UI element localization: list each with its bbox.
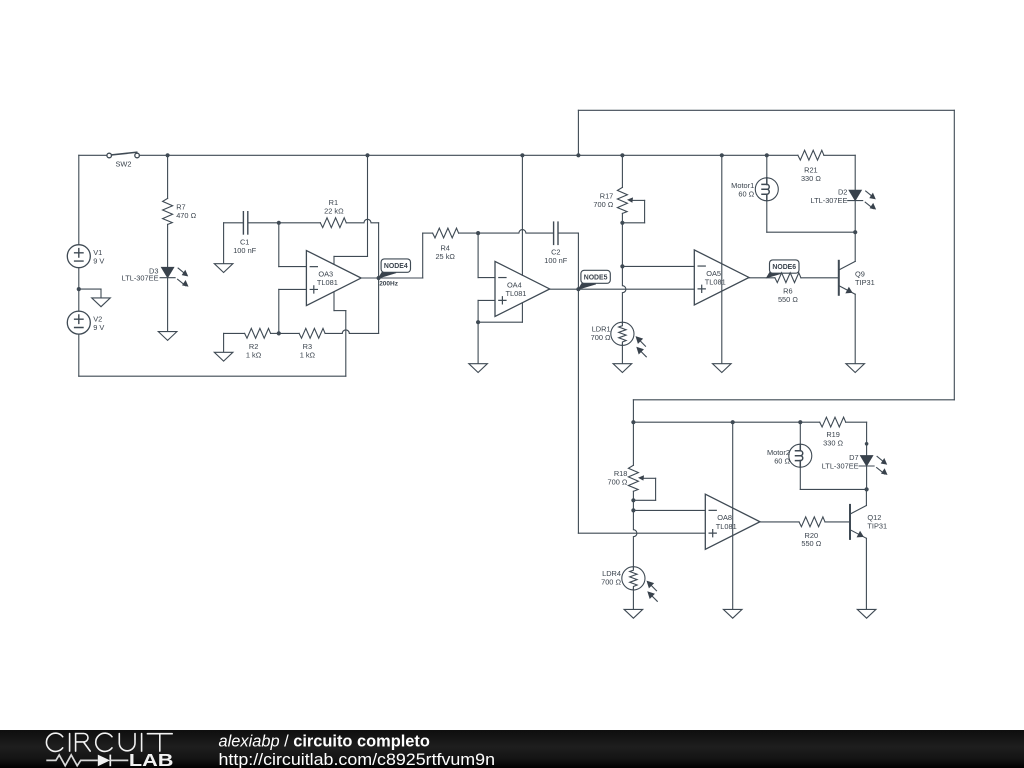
transistor Q9 <box>839 261 855 295</box>
op-amp OA4 <box>495 261 550 316</box>
wire R4 left lead <box>423 232 433 234</box>
ground OA8 <box>723 609 742 618</box>
wire R1 to output <box>378 223 380 278</box>
junction OA5 minus <box>620 264 624 268</box>
wire C2 to NODE5 <box>577 233 579 289</box>
junction OA4 V+ branch <box>520 153 524 157</box>
svg-text:LTL-307EE: LTL-307EE <box>122 274 159 283</box>
wire lower rail <box>633 421 819 423</box>
svg-text:9 V: 9 V <box>93 257 104 266</box>
svg-text:TIP31: TIP31 <box>855 278 875 287</box>
wire R19 right <box>846 421 867 423</box>
wire R18/LDR4 with hop <box>633 510 637 568</box>
wire to R1 <box>279 222 321 224</box>
wire Q9 collector up <box>854 232 856 261</box>
wire OA3 V- drop <box>345 311 347 377</box>
wire R17 to OA5 minus <box>621 213 623 266</box>
wire C1 ground stem <box>223 223 225 264</box>
wire OA8 output <box>760 521 799 523</box>
svg-text:550 Ω: 550 Ω <box>801 539 821 548</box>
svg-text:LTL-307EE: LTL-307EE <box>822 461 859 470</box>
junction R17 wiper <box>620 221 624 225</box>
svg-text:60 Ω: 60 Ω <box>738 189 754 198</box>
node NODE5 flag <box>578 282 596 289</box>
wire OA5 supply line <box>721 155 723 363</box>
wire left rail down to V1 <box>78 155 80 244</box>
ground OA5 <box>713 364 732 373</box>
wire LDR1 to ground <box>621 344 623 364</box>
wire NODE5 drop to OA8 <box>577 289 579 533</box>
wire down to D7 <box>866 422 868 456</box>
svg-text:200Hz: 200Hz <box>379 280 399 287</box>
svg-text:700 Ω: 700 Ω <box>593 200 613 209</box>
wire OA4 ground stem <box>477 322 479 364</box>
LED D7 <box>859 456 887 475</box>
wire R17 wiper to bottom <box>622 222 644 224</box>
svg-text:TL081: TL081 <box>505 289 526 298</box>
ground D3 <box>158 332 177 341</box>
wire R3 right with hop <box>325 330 379 333</box>
ground Q9 <box>846 364 865 373</box>
wire gnd to R2 <box>224 332 245 334</box>
wire OA3 V- pin <box>333 292 335 311</box>
wire OA3 V+ pin <box>333 256 335 264</box>
resistor R7 <box>163 198 173 224</box>
photoresistor LDR1 <box>611 322 646 357</box>
svg-text:1 kΩ: 1 kΩ <box>246 351 262 360</box>
wire OA3 V+ drop <box>367 155 369 256</box>
wire rail to Motor1 <box>766 155 768 178</box>
wire OA4 V- pin <box>521 303 523 322</box>
switch SW2 <box>107 152 140 158</box>
wire D7 to junction <box>866 466 868 489</box>
wire OA3 V- jog <box>334 310 346 312</box>
svg-text:1 kΩ: 1 kΩ <box>300 351 316 360</box>
footer bar <box>0 730 1024 768</box>
wire R21 to D2 <box>824 154 855 156</box>
voltage source V1 <box>67 245 90 268</box>
potentiometer R18 <box>628 465 638 491</box>
svg-text:100 nF: 100 nF <box>544 256 567 265</box>
logo resistor-diode squiggle <box>46 755 128 767</box>
junction OA8 minus <box>631 508 635 512</box>
svg-text:http://circuitlab.com/c8925rtf: http://circuitlab.com/c8925rtfvum9n <box>219 751 496 768</box>
transistor Q12 <box>850 505 866 539</box>
svg-text:alexiabp / circuito completo: alexiabp / circuito completo <box>219 733 430 751</box>
wire OA3 plus drop <box>278 289 280 333</box>
wire OA5 minus input <box>622 265 694 267</box>
wire V2 to -rail <box>78 334 80 376</box>
wire junction to R3 <box>279 332 299 334</box>
svg-text:25 kΩ: 25 kΩ <box>435 252 455 261</box>
wire bottom -rail <box>79 375 346 377</box>
wire R4 right lead <box>459 232 479 234</box>
node NODE6 flag <box>767 271 785 278</box>
voltage source V2 <box>67 311 90 334</box>
wire D3 to ground <box>167 278 169 332</box>
motor Motor1 <box>755 178 778 201</box>
LED D3 <box>160 267 188 286</box>
wire Motor2 down <box>799 467 801 489</box>
junction R18 wiper <box>631 498 635 502</box>
ground R2 <box>214 352 233 361</box>
svg-text:TL081: TL081 <box>317 278 338 287</box>
junction OA3 V+ branch <box>365 153 369 157</box>
wire C2 right <box>558 232 578 234</box>
svg-text:NODE6: NODE6 <box>772 264 796 271</box>
ground OA4 <box>469 364 488 373</box>
svg-text:LTL-307EE: LTL-307EE <box>811 196 848 205</box>
wire R18 to OA8 minus <box>632 491 634 510</box>
wire junction to OA3 minus <box>278 223 280 267</box>
wire R20 to Q12 base <box>825 521 850 523</box>
svg-text:700 Ω: 700 Ω <box>601 578 621 587</box>
op-amp OA3 <box>306 251 361 306</box>
wire to OA4 minus <box>477 233 479 278</box>
junction lower rail left <box>631 420 635 424</box>
potentiometer R17 <box>617 187 627 213</box>
CircuitLab logo CIRCUIT <box>46 733 172 751</box>
wire OA4 plus input <box>478 299 495 301</box>
wire R17/LDR1 with hop <box>622 266 626 323</box>
wire R7 to D3 <box>167 224 169 267</box>
svg-text:22 kΩ: 22 kΩ <box>324 206 344 215</box>
wire OA4 V+ drop <box>521 155 523 275</box>
svg-text:LAB: LAB <box>129 750 174 768</box>
wire loop bottom <box>633 399 954 401</box>
wire rail to R18 <box>632 422 634 465</box>
svg-text:TL081: TL081 <box>716 522 737 531</box>
wire Motor1 bottom <box>767 231 855 233</box>
junction NODE5 <box>576 287 580 291</box>
wire OA3 V+ jog <box>334 255 368 257</box>
wire R18 wiper to bottom <box>633 499 655 501</box>
junction R7 branch <box>166 153 170 157</box>
R17 wiper <box>627 197 645 202</box>
op-amp OA8 <box>705 494 760 549</box>
wire OA4 minus input <box>478 277 495 279</box>
junction Motor2 branch <box>798 420 802 424</box>
svg-text:SW2: SW2 <box>115 159 131 168</box>
ground LDR4 <box>624 609 643 618</box>
wire OA8 minus input <box>633 509 705 511</box>
resistor R21 <box>798 150 824 160</box>
wire rail to SW2 <box>79 154 107 156</box>
wire OA4 V- jog <box>478 321 522 323</box>
photoresistor LDR4 <box>622 567 657 602</box>
wire loop left riser <box>577 110 579 155</box>
wire rail to Motor2 <box>799 422 801 444</box>
wire OA3 minus input <box>279 266 307 268</box>
junction above D7 <box>865 442 869 446</box>
ground LDR1 <box>613 364 632 373</box>
wire C2 left with hop <box>478 230 553 233</box>
wire loop right side <box>953 110 955 400</box>
wire NODE5 to OA5 plus <box>578 288 694 290</box>
ground Q12 <box>857 609 876 618</box>
svg-text:100 nF: 100 nF <box>233 246 256 255</box>
wire LDR4 to ground <box>632 589 634 610</box>
svg-text:700 Ω: 700 Ω <box>607 478 627 487</box>
wire Q12 collector up <box>865 489 867 505</box>
wire OA4 output <box>550 288 579 290</box>
junction D7/Motor2/Q12 <box>865 487 869 491</box>
resistor R4 <box>433 228 459 238</box>
wire OA3 output <box>361 277 379 279</box>
wire Q9 emitter down <box>854 294 856 364</box>
svg-text:330 Ω: 330 Ω <box>823 439 843 448</box>
motor Motor2 <box>789 444 812 467</box>
resistor R19 <box>820 417 846 427</box>
junction R17 branch <box>620 153 624 157</box>
wire OA5 output <box>749 277 775 279</box>
wire R18 wiper down <box>655 478 657 500</box>
junction OA8 V+ branch <box>731 420 735 424</box>
wire down to D2 <box>854 155 856 190</box>
junction Motor1 branch <box>765 153 769 157</box>
wire R1 right with hop <box>346 219 378 222</box>
wire OA8 supply line <box>732 422 734 609</box>
resistor R1 <box>320 218 346 228</box>
junction mid-supply <box>77 287 81 291</box>
svg-text:TL081: TL081 <box>705 277 726 286</box>
capacitor C2 <box>554 222 558 244</box>
ground mid-supply <box>92 298 111 307</box>
junction R4/C2/OA4- <box>476 231 480 235</box>
resistor R20 <box>799 517 825 527</box>
svg-text:TIP31: TIP31 <box>867 522 887 531</box>
resistor R3 <box>299 328 325 338</box>
svg-text:NODE5: NODE5 <box>584 274 608 281</box>
wire loop to lower rail <box>632 400 634 422</box>
wire OA3 plus input <box>279 288 307 290</box>
junction OA4 ground <box>476 320 480 324</box>
wire Motor1 down <box>766 201 768 232</box>
wire main +rail <box>139 154 798 156</box>
wire R6 to Q9 base <box>801 277 839 279</box>
node NODE6 box <box>770 260 800 273</box>
junction OA5 V+ branch <box>720 153 724 157</box>
wire V1 to V2 <box>78 268 80 312</box>
junction C1/R1/OA3- <box>277 221 281 225</box>
node NODE4 box <box>381 259 410 272</box>
wire to mid ground <box>79 288 101 290</box>
resistor R2 <box>245 328 271 338</box>
wire Motor2 bottom <box>800 488 866 490</box>
svg-text:550 Ω: 550 Ω <box>778 295 798 304</box>
svg-text:330 Ω: 330 Ω <box>801 174 821 183</box>
svg-text:NODE4: NODE4 <box>384 263 408 270</box>
svg-text:9 V: 9 V <box>93 323 104 332</box>
svg-text:470 Ω: 470 Ω <box>176 211 196 220</box>
wire Q12 emitter down <box>865 538 867 609</box>
LED D2 <box>848 190 876 209</box>
wire OA4 plus drop <box>477 300 479 322</box>
wire ground stem <box>100 289 102 298</box>
junction R2/R3/OA3+ <box>277 331 281 335</box>
wire NODE4 to R4 <box>379 277 423 279</box>
op-amp OA5 <box>694 250 749 305</box>
svg-text:700 Ω: 700 Ω <box>591 333 611 342</box>
wire rail to R17 <box>621 155 623 187</box>
wire R17 wiper down <box>644 200 646 222</box>
resistor R6 <box>775 273 801 283</box>
junction loop branch <box>576 153 580 157</box>
wire D2 to junction <box>854 201 856 233</box>
wire R4 left riser <box>422 233 424 278</box>
wire C1 left <box>224 222 243 224</box>
node NODE4 flag <box>379 271 397 278</box>
wire R3 to output <box>378 278 380 334</box>
ground C1 <box>214 264 233 273</box>
capacitor C1 <box>243 212 247 234</box>
wire R2 to junction <box>271 332 279 334</box>
wire NODE5 to OA8 plus <box>578 532 705 534</box>
node NODE5 box <box>581 270 610 283</box>
wire loop top <box>578 109 954 111</box>
R18 wiper <box>638 475 656 480</box>
wire C1 to junction <box>248 222 279 224</box>
svg-text:60 Ω: 60 Ω <box>774 456 790 465</box>
wire rail to R7 <box>167 155 169 198</box>
wire R2 ground stem <box>223 333 225 352</box>
junction NODE4 <box>377 276 381 280</box>
junction D2/Motor1/Q9 <box>853 230 857 234</box>
